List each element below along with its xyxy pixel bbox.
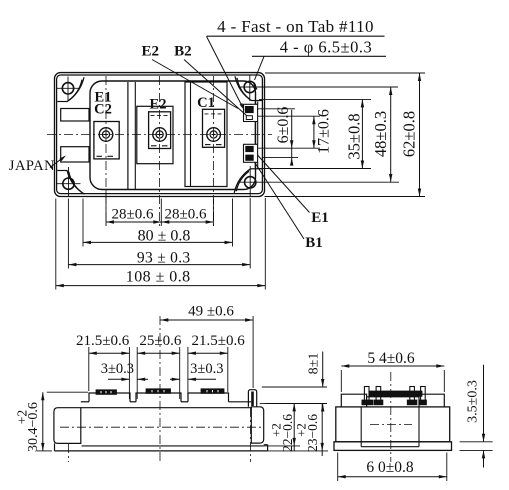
svg-text:28±0.6: 28±0.6 — [165, 207, 207, 223]
svg-text:3.5±0.3: 3.5±0.3 — [466, 380, 481, 423]
svg-text:3±0.3: 3±0.3 — [101, 361, 134, 377]
svg-text:62±0.8: 62±0.8 — [400, 111, 419, 157]
svg-text:E2: E2 — [142, 43, 160, 59]
svg-text:C2: C2 — [94, 102, 112, 118]
svg-text:49 ±0.6: 49 ±0.6 — [188, 304, 234, 320]
svg-text:25±0.6: 25±0.6 — [139, 333, 181, 349]
svg-text:80 ± 0.8: 80 ± 0.8 — [138, 228, 191, 245]
svg-text:4 - Fast - on Tab #110: 4 - Fast - on Tab #110 — [217, 17, 374, 36]
svg-text:3±0.3: 3±0.3 — [190, 361, 223, 377]
svg-text:48±0.3: 48±0.3 — [371, 111, 390, 157]
svg-text:JAPAN: JAPAN — [9, 158, 55, 174]
svg-text:23−0.6: 23−0.6 — [305, 414, 320, 452]
svg-text:17±0.6: 17±0.6 — [316, 109, 333, 154]
svg-text:21.5±0.6: 21.5±0.6 — [76, 333, 130, 349]
svg-text:8±1: 8±1 — [307, 353, 322, 375]
svg-text:93 ± 0.3: 93 ± 0.3 — [137, 249, 191, 266]
svg-text:30.4−0.6: 30.4−0.6 — [26, 402, 41, 452]
svg-text:C1: C1 — [197, 95, 215, 111]
svg-text:35±0.8: 35±0.8 — [344, 113, 363, 159]
svg-text:28±0.6: 28±0.6 — [112, 207, 154, 223]
svg-text:E1: E1 — [311, 210, 329, 226]
svg-text:E2: E2 — [150, 97, 167, 113]
svg-text:5 4±0.6: 5 4±0.6 — [367, 350, 415, 367]
svg-text:108 ± 0.8: 108 ± 0.8 — [126, 268, 191, 285]
svg-text:21.5±0.6: 21.5±0.6 — [191, 333, 245, 349]
svg-text:6±0.6: 6±0.6 — [275, 107, 292, 144]
svg-text:4 - φ 6.5±0.3: 4 - φ 6.5±0.3 — [280, 38, 372, 57]
svg-text:6 0±0.8: 6 0±0.8 — [366, 459, 414, 476]
svg-text:B2: B2 — [174, 43, 192, 59]
svg-text:B1: B1 — [305, 235, 323, 251]
